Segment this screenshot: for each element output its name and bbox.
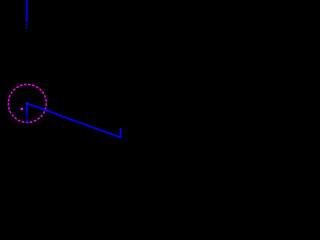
- wire: vertical blue line inside circle (solid part): [26, 103, 28, 116]
- wire: blue diagonal line from circle center to lower right: [27, 104, 120, 138]
- wire: vertical blue line inside circle dash 1: [26, 117, 28, 119]
- point P0 (magenta center point of circle, under blue lines): [26, 102, 29, 105]
- wire: vertical blue line inside circle dash 2: [26, 120, 28, 122]
- wire: top vertical blue line end dash 1: [26, 24, 28, 26]
- wire: blue vertical end tick at diagonal end: [120, 128, 122, 139]
- point P1 (isolated magenta square dot inside circle): [21, 108, 23, 110]
- canvas background: [0, 0, 150, 150]
- wire: top vertical blue line end dash 2: [26, 27, 28, 29]
- wire: top vertical blue line (solid part): [26, 0, 28, 22]
- circle C1 (dotted magenta circle): [8, 84, 46, 122]
